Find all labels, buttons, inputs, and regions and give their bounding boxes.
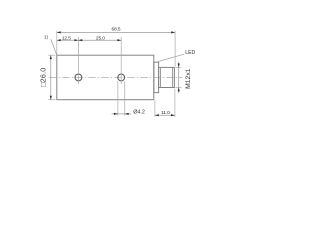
svg-text:12.5: 12.5: [62, 36, 71, 42]
extension line hole2 center: [120, 37, 122, 84]
connector collar: [154, 62, 159, 92]
svg-text:Ø4.2: Ø4.2: [133, 110, 145, 116]
svg-text:1): 1): [44, 35, 49, 40]
svg-text:LED: LED: [185, 50, 195, 56]
mounting hole 2: [118, 74, 125, 81]
extension line tip bottom: [174, 89, 176, 117]
centerline: [49, 76, 182, 78]
extension line thread bottom right: [176, 87, 182, 89]
thread chamfer line right: [172, 67, 174, 87]
svg-text:M12x1: M12x1: [185, 68, 192, 89]
extension line thread top right: [176, 66, 182, 68]
dimension M12x1 line: [178, 62, 180, 93]
extension line connector tip: [174, 31, 176, 67]
svg-text:25.0: 25.0: [96, 36, 105, 42]
dimension square 26.0 line: [50, 55, 52, 99]
sensor body outline: [57, 55, 154, 99]
LED leader line: [156, 54, 184, 62]
dimension dia 4.2 line: [112, 113, 132, 115]
extension line hole2 left tangent: [117, 81, 119, 115]
dimension 11.0 line: [155, 114, 175, 116]
svg-text:11.0: 11.0: [161, 110, 170, 116]
extension line body left: [56, 31, 58, 55]
dimension 68.5 line: [57, 31, 175, 33]
thread chamfer line left: [159, 67, 161, 87]
mounting hole 1: [75, 74, 82, 81]
extension line body bottom left: [48, 99, 55, 101]
M12 thread body: [159, 67, 175, 87]
footnote 1) leader line: [51, 39, 57, 55]
svg-text:□26.0: □26.0: [39, 68, 48, 87]
extension line body top left: [48, 54, 55, 56]
extension line hole1 center: [77, 37, 79, 84]
svg-text:68.5: 68.5: [112, 27, 121, 33]
dimension 12.5 / 25.0 line: [57, 39, 121, 41]
extension line body right bottom: [154, 100, 156, 117]
extension line hole2 right tangent: [124, 81, 126, 115]
